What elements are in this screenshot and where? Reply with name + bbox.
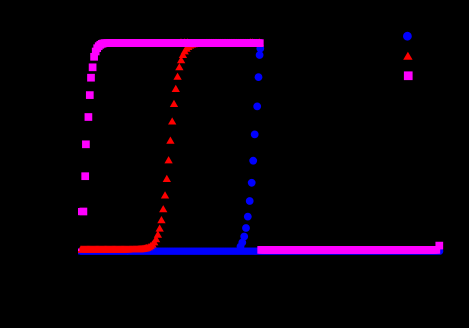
blue series xyxy=(73,45,444,255)
red series xyxy=(72,38,264,252)
legend blue circle xyxy=(403,32,412,41)
legend red triangle xyxy=(403,52,412,60)
magenta series xyxy=(78,39,443,254)
legend magenta square xyxy=(404,71,413,80)
